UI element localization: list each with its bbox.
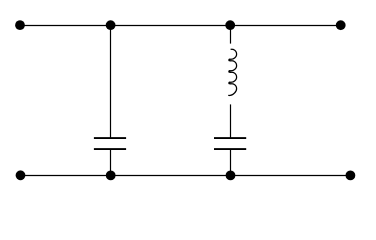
node terminal bottom-left <box>16 170 26 180</box>
node terminal bottom-right <box>346 171 356 181</box>
wire bottom bus <box>21 175 351 177</box>
node junction top-1 <box>106 20 116 30</box>
wire right branch lower segment <box>230 149 232 176</box>
capacitor C1 <box>94 138 126 149</box>
node terminal top-left <box>15 20 25 30</box>
wire top bus <box>20 25 341 27</box>
wire left branch upper segment <box>110 26 112 139</box>
wire left branch lower segment <box>110 149 112 176</box>
inductor L1 <box>228 49 236 95</box>
node terminal top-right <box>336 20 346 30</box>
node junction bottom-1 <box>106 171 116 181</box>
node junction top-2 <box>225 20 235 30</box>
wire right branch upper stub <box>230 26 232 44</box>
capacitor C2 <box>214 138 246 149</box>
node junction bottom-2 <box>226 171 236 181</box>
wire right branch middle segment (inductor to capacitor) <box>230 104 232 138</box>
